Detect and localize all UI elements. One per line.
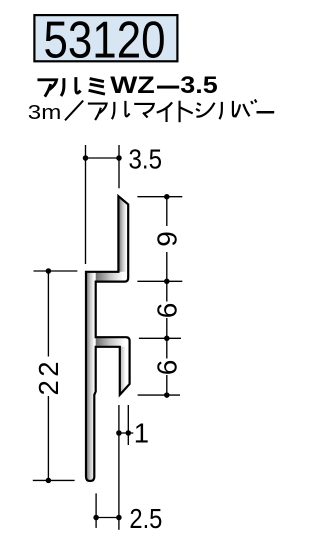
title line 1: katakana ARUMI (drawn strokes) + WZ-3.5 [37, 77, 105, 97]
svg-text:1: 1 [134, 417, 149, 448]
dash of WZ-3.5 [157, 86, 179, 89]
katakana RU (bold) [61, 77, 81, 96]
svg-text:3.5: 3.5 [180, 72, 218, 99]
svg-text:9: 9 [151, 231, 182, 247]
svg-text:22: 22 [33, 358, 64, 396]
svg-text:WZ: WZ [110, 72, 155, 99]
katakana A [88, 104, 107, 120]
svg-text:53120: 53120 [44, 11, 166, 69]
choonpu dash [257, 111, 275, 114]
fin shading [118, 196, 128, 282]
katakana RU [219, 101, 237, 119]
fullwidth slash [65, 101, 83, 121]
top web shading [96, 272, 129, 282]
katakana A (bold) [37, 80, 56, 97]
katakana BA [235, 99, 256, 117]
dimension 22 [33, 271, 78, 480]
svg-text:3m: 3m [28, 101, 62, 124]
header box 53120 [34, 15, 177, 61]
svg-text:2.5: 2.5 [129, 503, 162, 534]
hook leg shading [120, 347, 130, 395]
katakana I [157, 102, 172, 122]
dimension 9 / 6 / 6 column [137, 197, 182, 395]
svg-text:6: 6 [151, 360, 182, 376]
katakana SHI [196, 103, 214, 117]
hook web shading [96, 337, 130, 347]
katakana MA [134, 104, 153, 118]
svg-text:6: 6 [151, 303, 182, 319]
katakana MI (bold) [89, 79, 105, 95]
profile outline [86, 196, 130, 481]
katakana TO [180, 101, 193, 123]
dimension 2.5 [96, 493, 119, 528]
profile shading [85, 195, 131, 482]
svg-text:3.5: 3.5 [129, 143, 163, 174]
dimension 3.5 [86, 145, 120, 264]
wall shading [86, 272, 96, 482]
katakana RU [112, 101, 130, 119]
dimension 1 [117, 405, 134, 530]
